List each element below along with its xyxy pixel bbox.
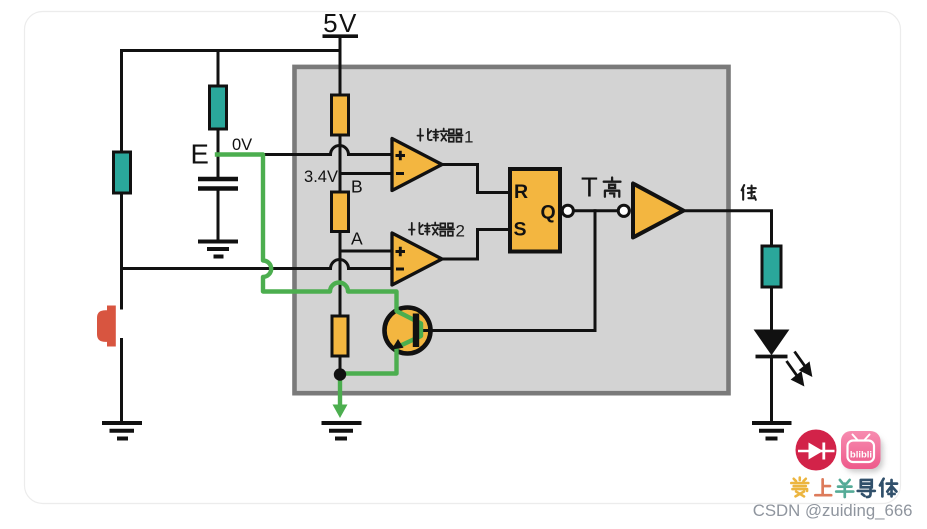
svg-text:1: 1 [464, 128, 473, 147]
capacitor E [198, 179, 238, 189]
ground capacitor [198, 242, 238, 257]
GROUNDS [102, 242, 792, 439]
logo text aishangbandaoti [791, 478, 897, 498]
wire inverter output to right resistor [683, 211, 772, 246]
wire 3.4V tap to comparator1 minus [340, 172, 392, 175]
comparator 2 [392, 233, 442, 285]
wire E to comparator1 plus with hump [218, 146, 392, 155]
svg-text:CSDN @zuiding_666: CSDN @zuiding_666 [753, 501, 913, 520]
green arrowhead to ground [333, 405, 348, 419]
wire capacitor to ground [217, 191, 220, 241]
svg-text:blibli: blibli [850, 450, 872, 461]
junction dot node below R3 [334, 368, 346, 380]
wire Q bubble to inverter bubble [574, 209, 617, 212]
transistor Q1 base bar [413, 314, 419, 348]
wire comparator1 output to R input [442, 165, 508, 193]
inverter buffer [633, 184, 684, 238]
resistor R3 orange [332, 316, 348, 356]
svg-text:E: E [191, 139, 209, 170]
wire T node down to transistor collector [420, 211, 596, 331]
resistor R2 orange [332, 192, 349, 232]
wire middle branch top [217, 51, 220, 87]
wire R1 to R2 [339, 135, 342, 192]
wire R3 to junction dot [339, 356, 342, 371]
svg-text:5V: 5V [323, 8, 358, 38]
logo diode circle [796, 430, 837, 471]
wire green junction to ground [338, 375, 342, 407]
svg-text:Q: Q [541, 202, 556, 224]
svg-text:2: 2 [456, 222, 465, 241]
ground LED [752, 423, 792, 439]
Q output bubble [562, 205, 573, 216]
label di (low) [742, 185, 756, 200]
wire button to ground [120, 340, 123, 422]
LED D1 [756, 331, 788, 357]
label comparator2 (bijiaoqi2) [409, 222, 465, 241]
IC body gray box [295, 67, 729, 393]
ground button [102, 423, 142, 439]
wire LED to ground [770, 357, 773, 421]
label comparator1 (bijiaoqi1) [417, 128, 473, 147]
wire top rail [122, 51, 341, 53]
push button S1 red [97, 306, 116, 347]
svg-text:S: S [514, 219, 527, 241]
svg-text:3.4V: 3.4V [304, 168, 338, 186]
ground IC discharge [322, 423, 362, 439]
inverter input bubble [618, 205, 629, 216]
wire resistor to LED [770, 287, 773, 331]
comparator 1 [392, 139, 442, 191]
wire node A to comparator2 plus [340, 250, 392, 253]
wire R2 to R3 [339, 232, 342, 317]
LED light arrows [787, 352, 811, 385]
power 5V symbol [323, 8, 359, 38]
wire E node to capacitor [217, 129, 220, 177]
svg-text:0V: 0V [232, 136, 252, 154]
resistor right teal [762, 246, 781, 287]
wire bottom rail with hump over node chain [122, 260, 393, 269]
wire comparator2 output to S input [442, 230, 508, 260]
wire left branch vertical [120, 51, 123, 309]
resistor left teal [114, 152, 131, 193]
svg-text:A: A [351, 229, 363, 249]
label gao (high) [604, 178, 621, 197]
transistor emitter arrowhead [392, 339, 404, 350]
SR latch U1 [510, 169, 560, 252]
GREEN TRACE [217, 155, 421, 407]
wire 5V lead [339, 37, 342, 96]
transistor Q1 body [385, 308, 431, 354]
wire green E feedback trace [217, 155, 421, 374]
logo bilibili [841, 431, 883, 472]
resistor R1 orange [332, 95, 349, 135]
resistor middle teal [210, 86, 227, 129]
svg-text:B: B [351, 177, 363, 197]
svg-text:R: R [514, 181, 528, 203]
svg-text:T: T [581, 172, 598, 203]
